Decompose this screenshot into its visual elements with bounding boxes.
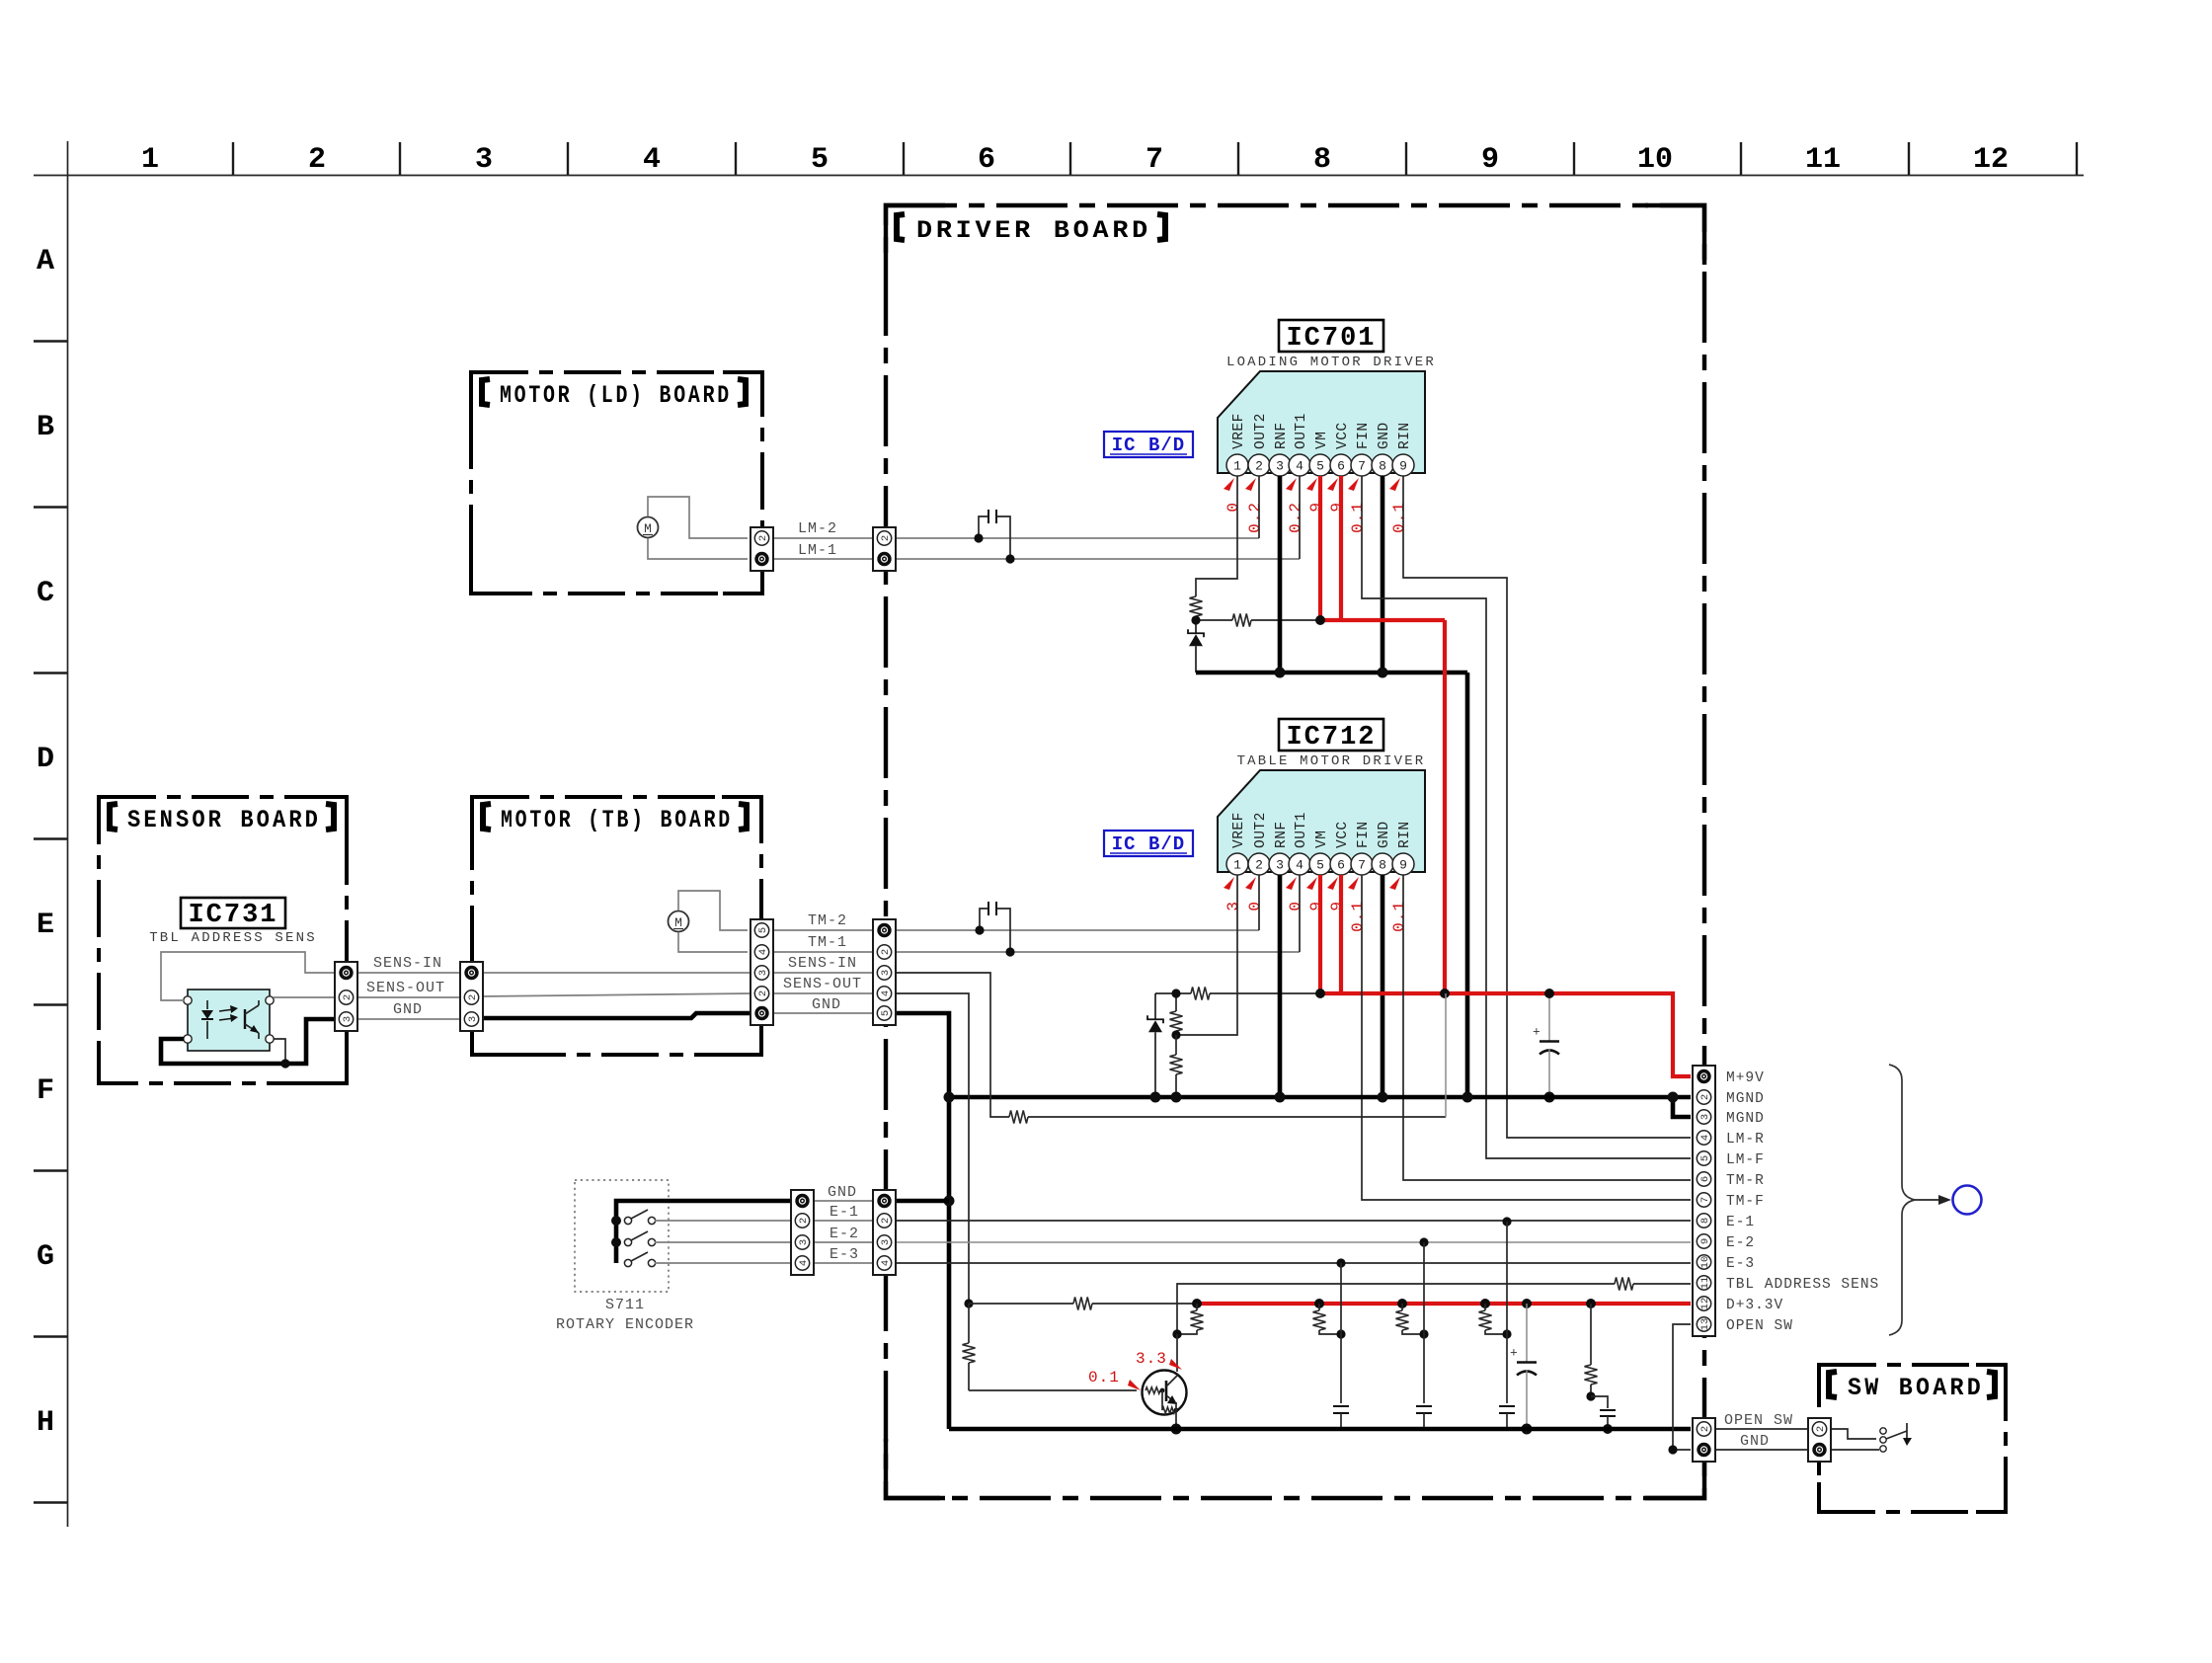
- svg-text:8: 8: [1699, 1218, 1711, 1224]
- wire IC701 pin3 RNF to ground bus: [1278, 476, 1283, 673]
- connector driver side (SW 2p): [1693, 1418, 1715, 1462]
- svg-text:+: +: [1533, 1025, 1540, 1040]
- driver board dashed outline: [886, 205, 1704, 1498]
- svg-text:IC B/D: IC B/D: [1112, 833, 1185, 855]
- svg-text:9: 9: [1481, 143, 1499, 177]
- IC701 pin 5 red arrow: [1306, 478, 1317, 491]
- svg-text:13: 13: [1699, 1318, 1711, 1331]
- svg-text:9: 9: [1399, 858, 1407, 873]
- wire IC701 pin7 FIN to LM-F: [1362, 476, 1691, 1158]
- svg-text:2: 2: [880, 1218, 892, 1224]
- svg-text:IC712: IC712: [1286, 723, 1376, 752]
- ruler row tick E: [34, 1003, 67, 1005]
- IC701 pin 3: [1269, 454, 1291, 476]
- svg-text:RNF: RNF: [1274, 821, 1290, 848]
- IC731 corner pins: [184, 996, 192, 1004]
- capacitor on E-1: [1499, 1405, 1515, 1407]
- svg-text:2: 2: [880, 949, 892, 955]
- svg-text:SENS-IN: SENS-IN: [373, 955, 442, 972]
- wire LM-1 between connectors: [773, 558, 875, 560]
- connector TB board left side (3p): [460, 962, 483, 1031]
- junction IC712 divider mid: [1171, 1030, 1180, 1039]
- capacitor across TM lines: [980, 909, 988, 930]
- ruler column tick 4: [735, 142, 737, 175]
- junction SENS-OUT 3.3V row: [964, 1299, 973, 1307]
- svg-text:3: 3: [1224, 901, 1242, 911]
- junction pull-up at 1526: [1502, 1329, 1511, 1338]
- junction LM-1 cap: [1005, 554, 1014, 563]
- junction OPEN SW RC node: [1586, 1391, 1595, 1400]
- resistor 3.3V to OPEN SW RC: [1590, 1304, 1592, 1365]
- svg-text:VCC: VCC: [1335, 422, 1351, 449]
- svg-text:9: 9: [1699, 1238, 1711, 1244]
- IC701 pin 4 red arrow: [1286, 478, 1297, 491]
- wire LM-2 inside driver board: [896, 537, 1259, 539]
- connector driver main 13p: [1693, 1066, 1715, 1336]
- svg-text:2: 2: [308, 143, 326, 177]
- svg-text:0.1: 0.1: [1088, 1369, 1120, 1386]
- svg-text:3: 3: [880, 970, 892, 976]
- op-amp IC712 label box: [1279, 719, 1383, 751]
- junction MGND zener: [1150, 1092, 1161, 1103]
- op-amp IC701 label box: [1279, 320, 1383, 352]
- svg-text:TM-2: TM-2: [808, 912, 847, 929]
- IC701 pin 6: [1330, 454, 1352, 476]
- resistor IC701 VREF to VM row: [1232, 614, 1251, 627]
- svg-text:DRIVER BOARD: DRIVER BOARD: [916, 216, 1151, 245]
- IC712 pin 2: [1248, 853, 1270, 875]
- resistor IC712 divider lower: [1175, 1035, 1177, 1055]
- wire IC712 pin3 RNF to MGND: [1278, 875, 1283, 1097]
- wire GND between sensor and TB board: [357, 1018, 461, 1020]
- svg-text:FIN: FIN: [1356, 422, 1372, 449]
- svg-text:E-2: E-2: [1726, 1235, 1755, 1251]
- wire IC712 pin4 OUT1 to TM-1: [1299, 875, 1301, 952]
- svg-text:2: 2: [757, 990, 769, 996]
- driver board title: [897, 214, 905, 240]
- wire TM-1 between connectors: [773, 951, 875, 953]
- svg-text:0.1: 0.1: [1349, 901, 1367, 932]
- svg-text:5: 5: [1316, 858, 1324, 873]
- junction pull-up at 1442: [1419, 1329, 1428, 1338]
- svg-text:LOADING MOTOR DRIVER: LOADING MOTOR DRIVER: [1226, 355, 1436, 370]
- svg-text:3: 3: [798, 1239, 810, 1245]
- svg-text:8: 8: [1313, 143, 1331, 177]
- motor M (LD): [638, 517, 659, 538]
- IC712 pin 6 red arrow: [1327, 877, 1338, 890]
- wire IC701 pin5 VM red: [1318, 476, 1322, 620]
- IC712 pin 9: [1392, 853, 1414, 875]
- junction MGND RNF: [1275, 1092, 1286, 1103]
- svg-text:D+3.3V: D+3.3V: [1726, 1298, 1783, 1313]
- svg-text:3: 3: [342, 1016, 354, 1022]
- electrolytic capacitor on 9V rail: [1548, 993, 1550, 1042]
- junction red 9V riser: [1440, 989, 1450, 998]
- junction 3.3V bus at 1504: [1480, 1299, 1490, 1308]
- svg-text:TM-R: TM-R: [1726, 1173, 1765, 1189]
- pull-up resistor at 1420: [1401, 1304, 1403, 1310]
- svg-text:E-2: E-2: [829, 1226, 859, 1242]
- svg-text:LM-F: LM-F: [1726, 1152, 1765, 1168]
- IC712 pin 1 red arrow: [1224, 877, 1234, 890]
- IC712 pin 6: [1330, 853, 1352, 875]
- svg-text:M: M: [674, 915, 682, 930]
- wire IC712 pin1 VREF: [1176, 875, 1237, 1035]
- IC712 pin 7: [1351, 853, 1373, 875]
- svg-text:B: B: [37, 411, 54, 444]
- IC701 pin 9: [1392, 454, 1414, 476]
- svg-text:VREF: VREF: [1231, 413, 1247, 449]
- ruler column tick 11: [1908, 142, 1910, 175]
- resistor on 3.3V feed: [1073, 1298, 1092, 1310]
- IC731 LED (photodiode): [206, 1000, 208, 1009]
- junction sensor GND: [280, 1059, 289, 1068]
- junction IC701 GND ground: [1378, 668, 1388, 678]
- IC731 light arrows: [219, 1009, 234, 1011]
- wire LM-1 inside driver board: [896, 558, 1300, 560]
- junction IC701 RNF ground: [1275, 668, 1286, 678]
- junction E-2 tap: [1419, 1237, 1428, 1246]
- IC712 pin 3: [1269, 853, 1291, 875]
- svg-text:3: 3: [467, 1016, 479, 1022]
- wire TM-2 inside driver: [896, 929, 1259, 931]
- pull-up resistor at 1212: [1196, 1304, 1198, 1310]
- wire SENS-IN inside TB board: [482, 972, 751, 974]
- wire LD motor to LM-1: [648, 538, 748, 559]
- junction 3.3V bus at 1546: [1522, 1299, 1532, 1308]
- IC712 pin 4: [1289, 853, 1310, 875]
- svg-text:3: 3: [1276, 459, 1284, 474]
- photo-interrupter IC731 body: [188, 990, 270, 1051]
- zener diode IC701 VREF: [1188, 629, 1204, 637]
- connector sensor board side (3p): [335, 962, 357, 1031]
- IC701 pin 5: [1309, 454, 1331, 476]
- encoder common line: [616, 1201, 793, 1263]
- junction red VM IC712: [1315, 989, 1325, 998]
- svg-text:S711: S711: [605, 1297, 645, 1313]
- svg-text:0: 0: [1287, 901, 1304, 911]
- svg-text:9: 9: [1307, 901, 1325, 911]
- wire E-2 drop: [1423, 1242, 1425, 1403]
- IC701 pin 2 red arrow: [1245, 478, 1256, 491]
- wire IC701 pin6 VCC red: [1339, 476, 1343, 620]
- wire TM-2 between connectors: [773, 929, 875, 931]
- svg-text:0.1: 0.1: [1390, 502, 1408, 533]
- resistor IC712 VREF to VM row: [1191, 988, 1210, 1000]
- svg-text:GND: GND: [1377, 422, 1392, 449]
- svg-text:3: 3: [1276, 858, 1284, 873]
- svg-text:E: E: [37, 909, 54, 942]
- wire transistor collector: [1176, 1334, 1178, 1372]
- svg-text:0.2: 0.2: [1287, 502, 1304, 533]
- wire TB motor to TM-1: [678, 932, 748, 952]
- svg-text:3: 3: [880, 1239, 892, 1245]
- connector SW board side (2p): [1808, 1418, 1831, 1462]
- svg-text:MOTOR (LD) BOARD: MOTOR (LD) BOARD: [500, 381, 732, 410]
- svg-text:5: 5: [811, 143, 829, 177]
- junction LM-2 cap: [974, 533, 983, 542]
- junction OPEN SW: [1668, 1445, 1677, 1454]
- wire sensor GND branch from phototransistor emitter: [274, 1039, 285, 1064]
- ruler column tick 3: [567, 142, 569, 175]
- IC701 pin 4: [1289, 454, 1310, 476]
- IC712 pin 9 red arrow: [1389, 877, 1400, 890]
- svg-text:3: 3: [1699, 1114, 1711, 1120]
- ruler column tick 6: [1069, 142, 1071, 175]
- svg-text:3: 3: [475, 143, 493, 177]
- IC B/D label for IC701: [1104, 432, 1193, 457]
- svg-text:2: 2: [1699, 1426, 1711, 1432]
- junction 3.3V bus at 1212: [1192, 1299, 1202, 1308]
- junction elcap33 bottom: [1522, 1424, 1533, 1435]
- wire IC701 pin1 VREF: [1196, 476, 1237, 596]
- svg-text:11: 11: [1805, 143, 1841, 177]
- svg-text:2: 2: [880, 535, 892, 541]
- svg-text:12: 12: [1699, 1298, 1711, 1310]
- ruler row tick C: [34, 672, 67, 673]
- wire SENS-IN inside driver: [896, 973, 1009, 1117]
- junction GND riser at encoder GND: [944, 1196, 955, 1207]
- motor TB board dashed outline: [472, 797, 761, 1055]
- wire IC701 pin2 OUT2 to LM-2: [1258, 476, 1260, 538]
- motor driver IC IC712 body: [1218, 770, 1425, 872]
- photo-interrupter IC731 label box: [181, 898, 285, 928]
- resistor on SENS-IN line: [1009, 1111, 1028, 1124]
- svg-text:4: 4: [1296, 459, 1303, 474]
- resistor on TBL ADDRESS SENS line: [1615, 1278, 1633, 1291]
- IC701 pin 1: [1226, 454, 1248, 476]
- svg-text:E-1: E-1: [1726, 1215, 1755, 1230]
- red D+3.3V bus: [1197, 1302, 1691, 1306]
- svg-text:4: 4: [880, 1260, 892, 1266]
- border left vertical line: [67, 141, 69, 1527]
- wire TB motor to TM-2: [678, 891, 748, 930]
- IC701 pin 7: [1351, 454, 1373, 476]
- IC712 pin 8: [1372, 853, 1393, 875]
- encoder switch 3: [624, 1259, 631, 1266]
- svg-text:5: 5: [757, 927, 769, 933]
- svg-text:+: +: [1510, 1346, 1518, 1361]
- svg-text:1: 1: [141, 143, 159, 177]
- svg-text:OUT2: OUT2: [1253, 812, 1269, 848]
- connector driver side (LD): [873, 527, 896, 571]
- switch contacts: [1880, 1428, 1886, 1434]
- junction elcap top red: [1544, 989, 1554, 998]
- wire encoder E-3 to connector: [655, 1262, 793, 1264]
- wire IC701 ground bus down to MGND: [1465, 673, 1470, 1097]
- connector TB board side (5p): [750, 919, 773, 1025]
- svg-text:H: H: [37, 1406, 54, 1440]
- wire IC701 VREF node row: [1196, 619, 1232, 621]
- svg-text:MGND: MGND: [1726, 1111, 1765, 1127]
- ruler row tick B: [34, 506, 67, 508]
- IC712 pin 4 red arrow: [1286, 877, 1297, 890]
- wire E-2 between encoder connectors: [812, 1241, 875, 1243]
- wire OPEN SW between connectors: [1716, 1428, 1808, 1430]
- capacitor across LM lines: [979, 516, 988, 538]
- svg-text:E-3: E-3: [1726, 1256, 1755, 1272]
- wire encoder GND inside driver: [896, 1199, 949, 1204]
- harness circle (blue): [1953, 1186, 1982, 1215]
- wire E-2 inside driver: [896, 1241, 1691, 1243]
- arrow to harness circle: [1915, 1199, 1943, 1201]
- wire sensor GND internal: [161, 1019, 335, 1064]
- svg-text:9: 9: [1328, 502, 1346, 513]
- svg-text:6: 6: [1337, 858, 1345, 873]
- wire SENS-IN between sensor and TB board: [357, 972, 461, 974]
- svg-text:VCC: VCC: [1335, 821, 1351, 848]
- svg-text:0.1: 0.1: [1349, 502, 1367, 533]
- junction GND riser at MGND: [944, 1092, 955, 1103]
- IC701 pin 1 red arrow: [1224, 478, 1234, 491]
- svg-text:LM-1: LM-1: [798, 542, 837, 559]
- svg-text:2: 2: [1255, 858, 1263, 873]
- svg-text:MOTOR (TB) BOARD: MOTOR (TB) BOARD: [501, 806, 733, 834]
- svg-text:OPEN SW: OPEN SW: [1726, 1318, 1793, 1334]
- svg-text:SENS-OUT: SENS-OUT: [783, 976, 862, 992]
- ruler column tick 8: [1405, 142, 1407, 175]
- wire GND between connectors: [773, 1012, 875, 1014]
- svg-text:4: 4: [1699, 1135, 1711, 1141]
- wire IC712 pin2 OUT2 to TM-2: [1258, 875, 1260, 930]
- wire red VM/VCC bus IC701: [1320, 618, 1445, 622]
- wire E-1 inside driver: [896, 1220, 1691, 1222]
- svg-text:10: 10: [1637, 143, 1673, 177]
- svg-text:7: 7: [1699, 1197, 1711, 1203]
- svg-text:4: 4: [643, 143, 661, 177]
- svg-text:IC701: IC701: [1286, 324, 1376, 354]
- ruler column tick 9: [1573, 142, 1575, 175]
- svg-text:5: 5: [880, 1010, 892, 1016]
- svg-text:1: 1: [1233, 459, 1241, 474]
- svg-text:TBL ADDRESS SENS: TBL ADDRESS SENS: [149, 930, 317, 946]
- junction MGND IC712 GND: [1378, 1092, 1388, 1103]
- resistor on SENS-OUT drop: [963, 1343, 976, 1363]
- svg-text:VM: VM: [1314, 432, 1330, 449]
- sensor board dashed outline: [99, 797, 347, 1083]
- wire LD motor to LM-2: [648, 497, 748, 538]
- svg-text:10: 10: [1699, 1256, 1711, 1269]
- wire IC712 pin7 FIN to TM-F: [1362, 875, 1691, 1200]
- IC B/D label for IC712: [1104, 831, 1193, 856]
- svg-text:TM-1: TM-1: [808, 934, 847, 951]
- wire GND inside TB board (heavy): [482, 1013, 751, 1018]
- junction TM-2 cap: [975, 925, 984, 934]
- wire encoder E-2 to connector: [655, 1241, 793, 1243]
- IC701 pin 6 red arrow: [1327, 478, 1338, 491]
- junction red IC701 VM node: [1315, 615, 1325, 625]
- connector encoder side (4p): [791, 1190, 814, 1275]
- svg-text:OUT2: OUT2: [1253, 413, 1269, 449]
- ruler column tick 1: [232, 142, 234, 175]
- svg-text:1: 1: [1233, 858, 1241, 873]
- junction IC701 VREF node: [1191, 615, 1200, 624]
- svg-text:LM-2: LM-2: [798, 520, 837, 537]
- pull-up resistor at 1336: [1318, 1304, 1320, 1310]
- connector LD board side: [750, 527, 773, 571]
- svg-text:GND: GND: [1377, 821, 1392, 848]
- svg-text:2: 2: [1255, 459, 1263, 474]
- svg-text:G: G: [37, 1240, 54, 1274]
- wire SENS-OUT between sensor and TB board: [357, 996, 461, 998]
- wire IC712 pin6 VCC red: [1339, 875, 1343, 993]
- wire E-3 inside driver: [896, 1262, 1691, 1264]
- svg-text:M: M: [644, 521, 652, 536]
- motor LD board title: [482, 379, 490, 405]
- SW board switch wiring: [1830, 1429, 1876, 1439]
- svg-text:F: F: [37, 1074, 54, 1108]
- svg-text:4: 4: [798, 1260, 810, 1266]
- ruler row tick F: [34, 1169, 67, 1171]
- electrolytic capacitor on 3.3V rail: [1526, 1304, 1528, 1363]
- brace for main connector: [1889, 1065, 1915, 1335]
- svg-text:2: 2: [1699, 1094, 1711, 1100]
- capacitor on E-2: [1416, 1405, 1432, 1407]
- IC712 pin 5: [1309, 853, 1331, 875]
- svg-text:0: 0: [1246, 901, 1264, 911]
- svg-text:GND: GND: [828, 1184, 857, 1201]
- svg-text:MGND: MGND: [1726, 1091, 1765, 1107]
- junction TM-1 cap: [1005, 947, 1014, 956]
- svg-text:IC731: IC731: [188, 901, 277, 930]
- encoder switch 1: [611, 1216, 621, 1226]
- junction 3.3V bus at 1611: [1586, 1299, 1596, 1308]
- svg-text:IC B/D: IC B/D: [1112, 435, 1185, 456]
- wire SENS-OUT inside driver: [896, 993, 969, 1304]
- svg-text:7: 7: [1145, 143, 1163, 177]
- svg-text:7: 7: [1358, 459, 1366, 474]
- wire SENS-IN between connectors: [773, 972, 875, 974]
- wire IC712 VREF node row: [1155, 992, 1191, 994]
- svg-text:6: 6: [1337, 459, 1345, 474]
- svg-text:LM-R: LM-R: [1726, 1132, 1765, 1148]
- junction MGND IC701 ground riser: [1462, 1092, 1473, 1103]
- ruler row tick A: [34, 340, 67, 342]
- svg-text:2: 2: [467, 994, 479, 1000]
- svg-text:FIN: FIN: [1356, 821, 1372, 848]
- svg-text:SW BOARD: SW BOARD: [1848, 1374, 1984, 1402]
- svg-text:GND: GND: [393, 1001, 423, 1018]
- svg-text:OUT1: OUT1: [1294, 812, 1309, 848]
- IC712 pin 7 red arrow: [1348, 877, 1359, 890]
- IC712 pin 5 red arrow: [1306, 877, 1317, 890]
- sensor board title: [110, 804, 118, 830]
- svg-text:TABLE MOTOR DRIVER: TABLE MOTOR DRIVER: [1237, 753, 1426, 769]
- connector driver side (TB 5p): [873, 919, 896, 1025]
- resistor on IC701 VREF divider (top): [1190, 596, 1203, 616]
- wire sensor SENS-OUT internal: [274, 996, 335, 998]
- junction 3.3V bus at 1336: [1314, 1299, 1324, 1308]
- svg-text:TBL ADDRESS SENS: TBL ADDRESS SENS: [1726, 1277, 1879, 1293]
- IC712 pin 2 red arrow: [1245, 877, 1256, 890]
- transistor Q (digital): [1143, 1371, 1187, 1415]
- SW board dashed outline: [1819, 1365, 2006, 1512]
- svg-text:TM-F: TM-F: [1726, 1194, 1765, 1210]
- wire IC712 pin9 RIN to TM-R: [1403, 875, 1691, 1180]
- IC701 pin 7 red arrow: [1348, 478, 1359, 491]
- wire IC712 pin5 VM red: [1318, 875, 1322, 993]
- wire GND between encoder connectors: [812, 1200, 875, 1202]
- junction emitter at GND bus: [1171, 1424, 1182, 1435]
- svg-text:SENS-OUT: SENS-OUT: [366, 980, 445, 996]
- junction IC712 divider top: [1171, 989, 1180, 997]
- wire encoder E-1 to connector: [655, 1220, 793, 1222]
- motor TB board title: [483, 804, 491, 830]
- rotary encoder S711 dotted box: [575, 1180, 669, 1292]
- SW board title: [1829, 1372, 1837, 1397]
- wire IC701 pin9 RIN to LM-R: [1403, 476, 1691, 1138]
- wire transistor emitter to GND bus: [1175, 1402, 1177, 1429]
